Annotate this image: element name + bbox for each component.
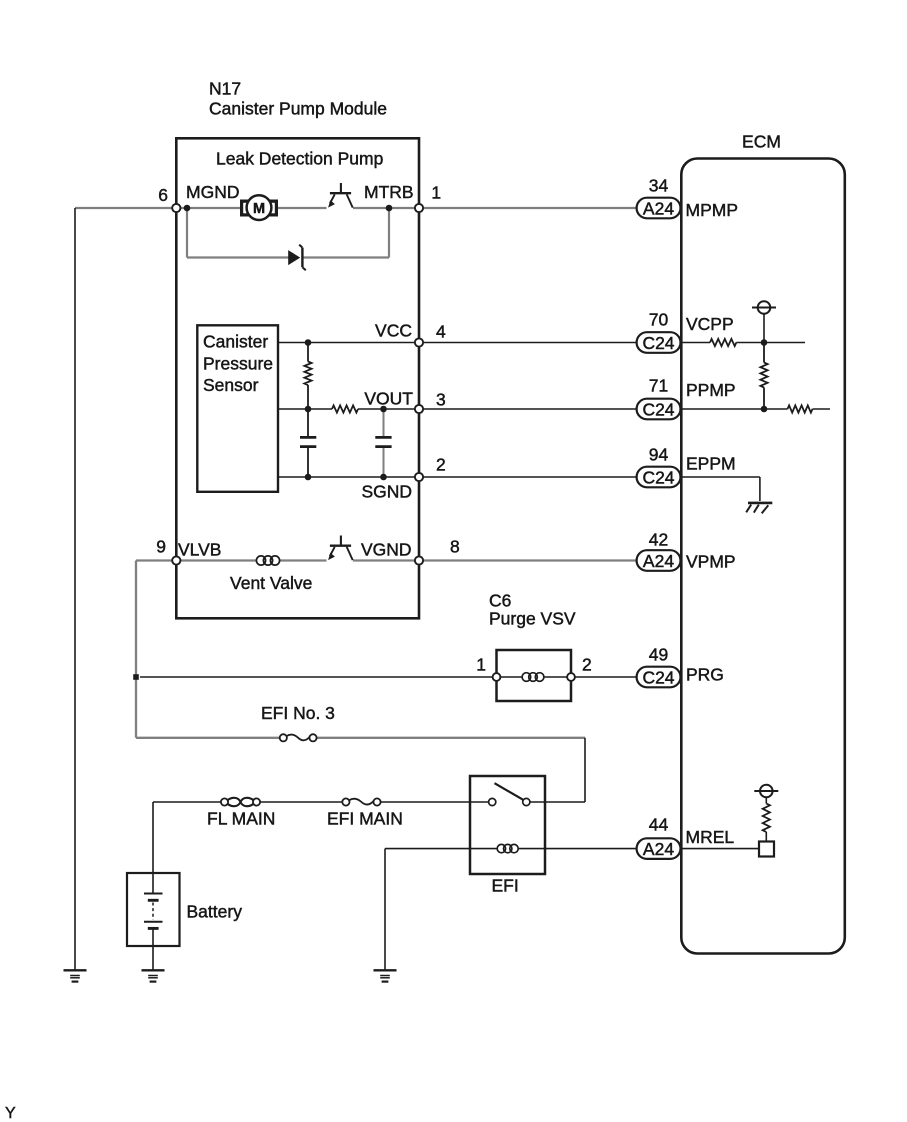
svg-text:Leak Detection Pump: Leak Detection Pump (216, 149, 383, 169)
svg-text:VPMP: VPMP (686, 552, 736, 572)
svg-text:Canister Pump Module: Canister Pump Module (209, 99, 387, 119)
svg-text:1: 1 (476, 655, 486, 675)
svg-text:A24: A24 (643, 551, 674, 571)
svg-text:4: 4 (436, 322, 446, 342)
svg-text:8: 8 (450, 537, 460, 557)
svg-text:A24: A24 (643, 198, 674, 218)
svg-text:MGND: MGND (186, 182, 239, 202)
svg-text:C24: C24 (642, 399, 674, 419)
svg-text:PPMP: PPMP (686, 380, 736, 400)
svg-text:A24: A24 (643, 839, 674, 859)
svg-text:PRG: PRG (686, 665, 724, 685)
svg-text:VLVB: VLVB (178, 540, 221, 560)
svg-text:VGND: VGND (361, 540, 412, 560)
svg-text:C24: C24 (642, 467, 674, 487)
svg-text:Battery: Battery (187, 902, 243, 922)
svg-text:2: 2 (436, 455, 446, 475)
svg-text:Canister: Canister (203, 332, 268, 352)
svg-text:MREL: MREL (686, 827, 735, 847)
svg-text:6: 6 (158, 185, 168, 205)
svg-text:42: 42 (649, 530, 668, 550)
svg-text:N17: N17 (209, 79, 241, 99)
svg-text:MPMP: MPMP (686, 200, 739, 220)
svg-text:VCPP: VCPP (686, 314, 734, 334)
svg-text:EFI No. 3: EFI No. 3 (261, 703, 335, 723)
svg-text:1: 1 (431, 183, 441, 203)
svg-text:3: 3 (436, 390, 446, 410)
svg-text:94: 94 (649, 445, 669, 465)
svg-text:VOUT: VOUT (364, 389, 413, 409)
svg-text:Purge VSV: Purge VSV (489, 609, 576, 629)
svg-text:34: 34 (649, 176, 669, 196)
svg-text:VCC: VCC (375, 321, 412, 341)
svg-text:C24: C24 (642, 333, 674, 353)
svg-text:Y: Y (5, 1105, 16, 1122)
svg-text:Pressure: Pressure (203, 353, 273, 373)
svg-text:EFI: EFI (492, 876, 519, 896)
svg-text:C6: C6 (489, 591, 511, 611)
svg-text:Sensor: Sensor (203, 375, 259, 395)
svg-text:FL MAIN: FL MAIN (207, 809, 275, 829)
svg-text:EFI MAIN: EFI MAIN (327, 809, 403, 829)
svg-text:MTRB: MTRB (364, 182, 414, 202)
svg-text:M: M (253, 201, 265, 217)
svg-text:9: 9 (156, 537, 166, 557)
svg-text:C24: C24 (642, 667, 674, 687)
svg-text:2: 2 (582, 655, 592, 675)
svg-text:ECM: ECM (742, 131, 781, 151)
svg-text:49: 49 (649, 645, 668, 665)
svg-text:44: 44 (649, 815, 669, 835)
svg-text:70: 70 (649, 310, 669, 330)
svg-text:EPPM: EPPM (686, 454, 736, 474)
svg-text:SGND: SGND (361, 482, 412, 502)
svg-text:71: 71 (649, 376, 668, 396)
svg-text:Vent Valve: Vent Valve (230, 573, 312, 593)
